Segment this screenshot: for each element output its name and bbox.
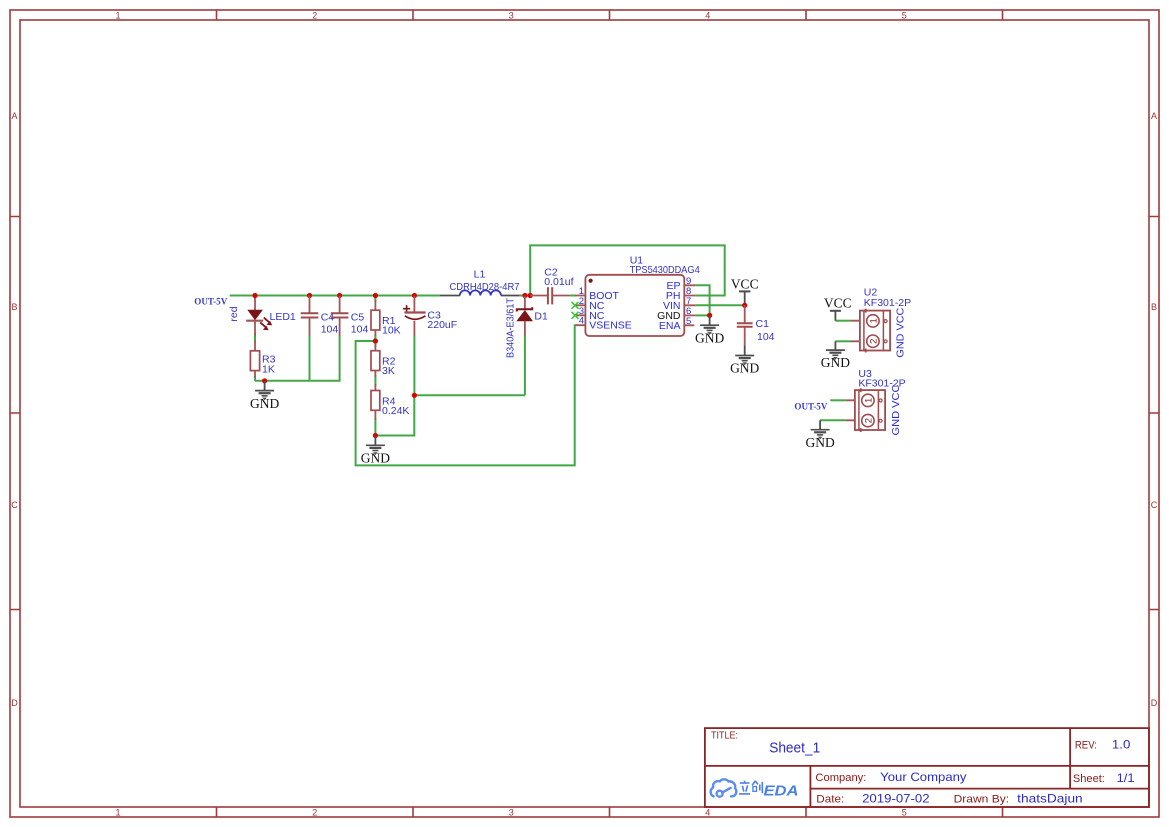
wire R4 gnd to C3/D1 gnd net [375,395,414,435]
U3 circle 1 [862,394,874,406]
capacitor C3 (electrolytic) [403,296,457,336]
ground symbol at LED/C4/C5 rail [255,381,274,400]
svg-text:GND: GND [657,310,681,322]
svg-text:Date:: Date: [816,793,844,805]
svg-text:4: 4 [705,11,710,21]
junction R1 on rail [373,293,378,298]
svg-text:GND: GND [695,331,724,346]
svg-text:10K: 10K [382,325,401,337]
svg-text:Your Company: Your Company [880,770,966,784]
svg-text:4: 4 [579,316,584,327]
svg-text:2: 2 [863,418,874,423]
C3 plus sign [403,305,410,312]
svg-text:GND: GND [361,451,390,466]
wire U1 pin6 GND to gnd symbol node [695,314,710,316]
junction D1 top [522,293,527,298]
svg-text:3: 3 [509,808,514,818]
svg-text:1: 1 [868,318,879,323]
D1 triangle [517,311,532,321]
capacitor C1 [737,305,775,345]
U3 pin leads [845,400,855,420]
wire U3 pin2 GND [820,419,845,421]
svg-text:A: A [11,111,17,121]
svg-text:Sheet_1: Sheet_1 [769,740,820,757]
svg-text:LED1: LED1 [270,311,296,323]
U3 mount ticks [860,388,862,432]
U1 left pin names [589,290,632,332]
svg-text:OUT-5V: OUT-5V [794,402,827,413]
LED1 triangle [248,310,262,319]
svg-text:104: 104 [351,324,369,336]
svg-text:GND VCC: GND VCC [890,384,902,435]
wire gnd net C3 to D1 [414,394,525,396]
svg-text:EDA: EDA [764,784,799,800]
left ruler ticks [10,217,20,610]
U2 mount ticks [865,309,867,353]
svg-text:REV:: REV: [1075,740,1097,752]
svg-text:L1: L1 [474,269,486,281]
svg-text:GND: GND [250,396,279,411]
svg-text:220uF: 220uF [427,319,457,331]
LED1 anode lead [254,296,256,311]
svg-text:C: C [11,500,18,510]
svg-text:A: A [1151,111,1157,121]
svg-text:GND: GND [821,355,850,370]
capacitor C4 [301,296,339,337]
U3 circle 2 [862,414,874,426]
svg-text:D1: D1 [534,311,548,323]
ground symbol at U3 pin2 [811,420,830,438]
svg-text:C: C [1151,500,1158,510]
wire R1 top stub [374,296,376,303]
svg-text:0.01uf: 0.01uf [544,276,573,288]
connector U3 KF301-2P [845,368,905,436]
junction C3 gnd node [412,393,417,398]
svg-text:2: 2 [312,11,317,21]
capacitor C5 [331,296,369,337]
wire PH top loop [530,245,725,295]
svg-text:1: 1 [115,11,120,21]
inductor L1 [440,269,520,296]
svg-text:4: 4 [705,808,710,818]
connector U2 KF301-2P [851,287,912,358]
svg-text:GND: GND [805,435,834,450]
junction GND tap on bottom rail [262,378,267,383]
right ruler ticks [1149,217,1159,610]
svg-text:1K: 1K [262,364,275,376]
U3 side pin circles [879,399,882,402]
resistor R3 top lead [254,341,256,351]
wire rail segment before D1 junction [519,295,530,297]
LED1 cathode bar [246,320,263,322]
svg-text:OUT-5V: OUT-5V [194,297,227,308]
svg-text:B340A-E3/61T: B340A-E3/61T [505,298,517,358]
TITLEBLOCK [705,728,1149,807]
U2 circle 1 [867,315,879,327]
ground symbol at U2 pin2 [826,341,845,359]
U1 right pin stubs [684,285,695,325]
wire U1 VIN to VCC node [695,304,745,306]
svg-text:5: 5 [902,11,907,21]
svg-text:D: D [1151,698,1158,708]
junction C4 on rail [307,293,312,298]
svg-text:B: B [1151,302,1157,312]
wire C3 bottom riser [413,335,415,396]
component LED1 with R3 chain [228,296,296,412]
U2 side pin circles [884,320,887,323]
wire C2 to U1 pin1 [570,295,576,297]
junction R4 gnd node [373,433,378,438]
CIRCUIT [194,245,911,465]
junction R1/R2 feedback node [373,338,378,343]
svg-text:Sheet:: Sheet: [1073,773,1105,785]
U1 pin numbers right [686,276,691,327]
svg-text:0.24K: 0.24K [382,405,409,417]
wire main OUT-5V rail [230,295,440,297]
ground symbol below R4 [366,436,385,455]
wire feedback VSENSE loop [356,325,576,465]
svg-text:5: 5 [902,808,907,818]
wire R2-R4 node [374,375,376,386]
wire D1 anode riser [524,335,526,396]
svg-text:CDRH4D28-4R7: CDRH4D28-4R7 [450,281,520,293]
U1 right pin names [659,280,681,332]
svg-text:104: 104 [757,331,775,343]
U1 pin1 marker [589,279,593,283]
power flag VCC at U2 [824,296,852,321]
wire bottom gnd rail LED/C4/C5 [255,336,340,381]
svg-text:1: 1 [115,808,120,818]
logo 立创 strokes [739,781,762,794]
ground symbol below C1 [735,345,754,364]
U3 body [855,390,885,430]
D1 schottky cathode bar [517,307,532,311]
wire LED1 cathode to R3 [254,333,256,342]
svg-text:VCC: VCC [731,277,759,292]
ground symbol at U1 pin6 [700,315,719,334]
svg-text:2: 2 [868,339,879,344]
LED1 cathode lead [254,321,256,336]
resistor R1 [371,300,401,337]
wire U1 EP to gnd [695,285,710,315]
wire U3 pin1 OUT-5V [830,399,845,401]
U1 body [585,275,684,336]
U1 NC X marks [572,302,579,309]
wire U2 pin1 VCC [835,320,850,322]
bottom ruler ticks [217,807,1003,817]
wire R4 bottom to GND [374,419,376,436]
wire R3 bottom to GND rail [254,377,256,381]
U2 circle 2 [867,335,879,347]
resistor R3 bottom lead [254,371,256,378]
wire C4 bottom riser [309,336,311,381]
svg-text:GND VCC: GND VCC [894,307,906,357]
svg-text:VCC: VCC [824,296,852,311]
junction PH loop top [528,293,533,298]
svg-text:2019-07-02: 2019-07-02 [862,791,930,805]
svg-text:1.0: 1.0 [1112,738,1131,752]
C3 top plate [404,311,425,313]
svg-text:2: 2 [312,808,317,818]
junction VCC node [742,303,747,308]
junction C5 on rail [337,293,342,298]
svg-text:D: D [11,698,18,708]
diode D1 (schottky) [505,296,548,359]
U2 pin leads [851,321,860,342]
svg-text:3K: 3K [382,365,395,377]
junction LED1 on rail [252,293,257,298]
resistor R3 body [250,351,259,371]
svg-text:1: 1 [863,398,874,403]
svg-text:GND: GND [730,361,759,376]
svg-text:5: 5 [686,316,691,327]
svg-text:C1: C1 [756,318,770,330]
U2 body [860,311,890,351]
LED1 emission arrow 2 [260,322,266,327]
svg-text:104: 104 [321,324,339,336]
svg-text:C5: C5 [351,312,365,324]
power flag VCC at U1 VIN [731,277,759,306]
svg-text:Company:: Company: [815,772,866,784]
junction U1 gnd/EP node [707,313,712,318]
svg-text:3: 3 [509,11,514,21]
C3 curved bottom plate [405,316,426,320]
svg-text:KF301-2P: KF301-2P [864,297,911,309]
U1 left pin stubs [575,296,585,326]
svg-text:Drawn By:: Drawn By: [954,793,1010,805]
svg-text:B: B [11,302,17,312]
wire R1-R2 node [374,335,376,347]
IC U1 TPS5430DDAG4 [572,255,700,337]
logo EasyEDA cloud [711,779,737,796]
resistor R2 [371,344,396,377]
svg-text:1/1: 1/1 [1117,771,1135,785]
junction C3 on rail [412,293,417,298]
svg-text:red: red [228,306,240,321]
LED1 emission arrow 1 [264,318,270,323]
svg-text:VSENSE: VSENSE [589,320,632,332]
top ruler ticks [217,10,1003,20]
svg-text:thatsDajun: thatsDajun [1017,791,1082,805]
svg-text:TITLE:: TITLE: [711,731,738,742]
U1 pin numbers left [579,286,584,327]
capacitor C2 [530,267,573,305]
wire U2 pin2 GND [835,340,850,342]
resistor R4 [371,384,409,420]
